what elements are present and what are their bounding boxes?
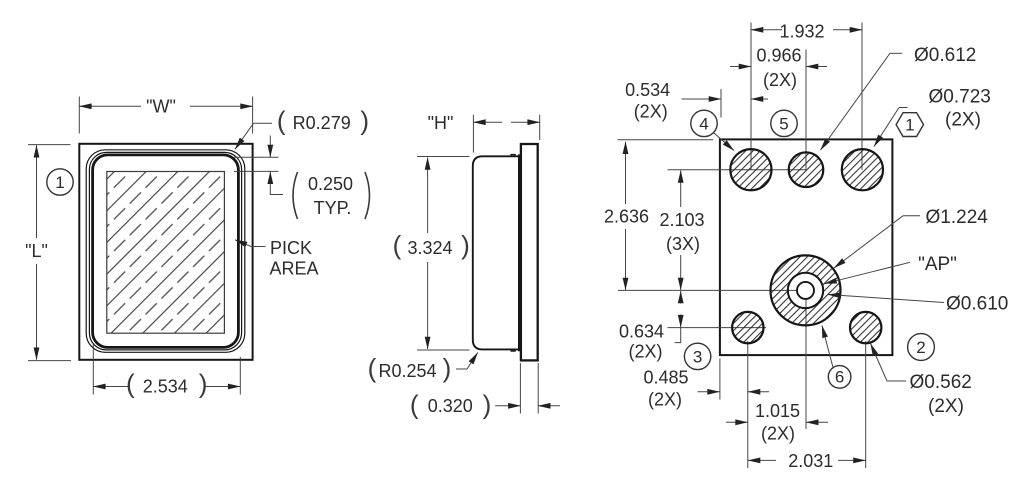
label diameter 0.612: [821, 45, 977, 150]
note R0.279: [235, 105, 369, 149]
svg-text:1: 1: [55, 173, 64, 192]
seal ring outer: [86, 150, 245, 352]
svg-text:2.534: 2.534: [143, 377, 188, 397]
svg-text:0.634: 0.634: [619, 322, 664, 342]
svg-text:Ø0.723: Ø0.723: [929, 87, 991, 108]
label diameter 1.224: [834, 207, 988, 268]
balloon 5: [771, 110, 797, 136]
dimension "W": [79, 97, 252, 134]
center pad 6 with AP hole: [771, 255, 841, 325]
svg-text:): ): [360, 105, 369, 135]
dimension "H": [428, 113, 540, 153]
svg-text:1.015: 1.015: [755, 401, 800, 421]
svg-text:(: (: [368, 353, 377, 383]
balloon 4: [691, 110, 734, 150]
note R0.254: [368, 353, 478, 384]
dimension 2.031: [748, 451, 866, 471]
pad 3: [732, 312, 763, 343]
seal ring middle: [89, 152, 241, 350]
seal ring inner (thick): [93, 155, 239, 348]
svg-text:R0.254: R0.254: [378, 361, 436, 381]
svg-text:(2X): (2X): [634, 101, 668, 121]
svg-text:): ): [483, 390, 492, 420]
svg-text:0.534: 0.534: [625, 80, 670, 100]
svg-text:Ø1.224: Ø1.224: [926, 207, 989, 228]
extension line pad 5 column: [805, 50, 807, 170]
package body outline: [79, 144, 252, 360]
svg-text:4: 4: [699, 115, 708, 134]
side view lid plate: [521, 144, 538, 360]
svg-text:3: 3: [693, 348, 702, 367]
label diameter 0.562 (2X): [871, 344, 972, 417]
note 0.250 TYP.: [234, 136, 370, 220]
svg-text:(2X): (2X): [928, 396, 964, 417]
dimension 3.324: [393, 157, 470, 351]
label diameter 0.610: [828, 293, 1008, 314]
label "AP": [825, 254, 957, 284]
pick area hatch: [107, 172, 225, 334]
svg-text:(2X): (2X): [763, 70, 797, 90]
svg-text:Ø0.612: Ø0.612: [914, 45, 976, 66]
balloon 2: [908, 334, 935, 361]
svg-text:2: 2: [916, 338, 925, 357]
svg-text:(3X): (3X): [666, 234, 700, 254]
svg-text:5: 5: [779, 115, 788, 134]
svg-text:AREA: AREA: [270, 259, 319, 279]
dimension 2.534: [93, 344, 240, 399]
svg-text:R0.279: R0.279: [293, 113, 351, 133]
svg-text:): ): [461, 230, 470, 260]
dimension 2.636: [604, 140, 713, 290]
pad 5: [789, 152, 824, 187]
svg-text:0.966: 0.966: [756, 45, 801, 65]
balloon 6: [822, 326, 851, 389]
svg-text:(2X): (2X): [761, 424, 795, 444]
extension line left edge bottom: [719, 359, 721, 400]
land pattern outline: [720, 139, 893, 355]
svg-text:"AP": "AP": [918, 254, 957, 275]
svg-text:"W": "W": [146, 97, 176, 117]
svg-text:PICK: PICK: [270, 238, 312, 258]
svg-text:2.636: 2.636: [604, 207, 649, 227]
svg-text:0.485: 0.485: [643, 368, 688, 388]
svg-text:TYP.: TYP.: [314, 198, 352, 218]
label diameter 0.723 (2X): [874, 87, 991, 147]
svg-text:(: (: [126, 369, 135, 399]
svg-text:3.324: 3.324: [407, 238, 452, 258]
label PICK AREA: [235, 238, 319, 279]
dimension 2.103 (3X): [659, 170, 704, 290]
svg-text:"L": "L": [25, 241, 48, 261]
dimension 0.966 (2X): [730, 45, 827, 90]
pad 1: [842, 149, 883, 190]
svg-text:): ): [199, 369, 208, 399]
svg-text:2.103: 2.103: [659, 210, 704, 230]
svg-text:): ): [443, 353, 452, 383]
side view body: [473, 154, 520, 351]
pad 4: [730, 149, 771, 190]
dimension 1.015 (2X): [726, 401, 828, 444]
dimension 0.320: [410, 363, 560, 420]
svg-text:1.932: 1.932: [779, 21, 824, 41]
centerline top pad row: [668, 169, 807, 171]
svg-text:(: (: [410, 390, 419, 420]
centerline bottom pad row: [668, 327, 767, 329]
extension line pad 1 column: [861, 23, 863, 170]
svg-text:Ø0.562: Ø0.562: [910, 372, 972, 393]
extension line pad 3 column: [747, 341, 749, 468]
svg-text:0.250: 0.250: [308, 174, 353, 194]
svg-text:2.031: 2.031: [788, 451, 833, 471]
dimension 0.485 (2X): [643, 368, 769, 410]
svg-text:0.320: 0.320: [428, 396, 473, 416]
extension line pad 4 column: [750, 23, 752, 170]
extension line left edge top: [720, 89, 722, 118]
svg-text:(2X): (2X): [648, 390, 682, 410]
centerline center pad row: [618, 289, 806, 291]
centerline center pad column: [805, 290, 807, 429]
dimension 0.634 (2X): [619, 291, 681, 362]
svg-text:(: (: [277, 105, 286, 135]
svg-text:(2X): (2X): [945, 110, 981, 131]
svg-text:"H": "H": [428, 113, 454, 133]
extension line pad 2 column: [865, 341, 867, 468]
dimension 0.534 (2X): [625, 80, 768, 121]
dimension 1.932: [751, 21, 862, 41]
balloon 3: [684, 343, 710, 369]
balloon 1 (left view): [47, 169, 73, 195]
svg-text:1: 1: [905, 116, 914, 135]
balloon 1: [896, 113, 923, 137]
svg-text:(2X): (2X): [628, 342, 662, 362]
svg-text:(: (: [393, 230, 402, 260]
pad 2: [850, 312, 881, 343]
dimension "L": [25, 145, 71, 361]
svg-text:6: 6: [835, 367, 844, 386]
svg-text:Ø0.610: Ø0.610: [946, 293, 1008, 314]
